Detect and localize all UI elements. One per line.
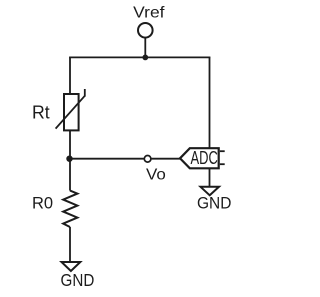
svg-text:ADC: ADC: [191, 148, 218, 168]
svg-text:R0: R0: [32, 194, 53, 212]
svg-text:GND: GND: [197, 195, 231, 213]
svg-text:Vref: Vref: [133, 4, 165, 21]
svg-text:Vo: Vo: [146, 167, 166, 184]
svg-text:GND: GND: [61, 270, 95, 290]
svg-text:Rt: Rt: [32, 103, 50, 123]
